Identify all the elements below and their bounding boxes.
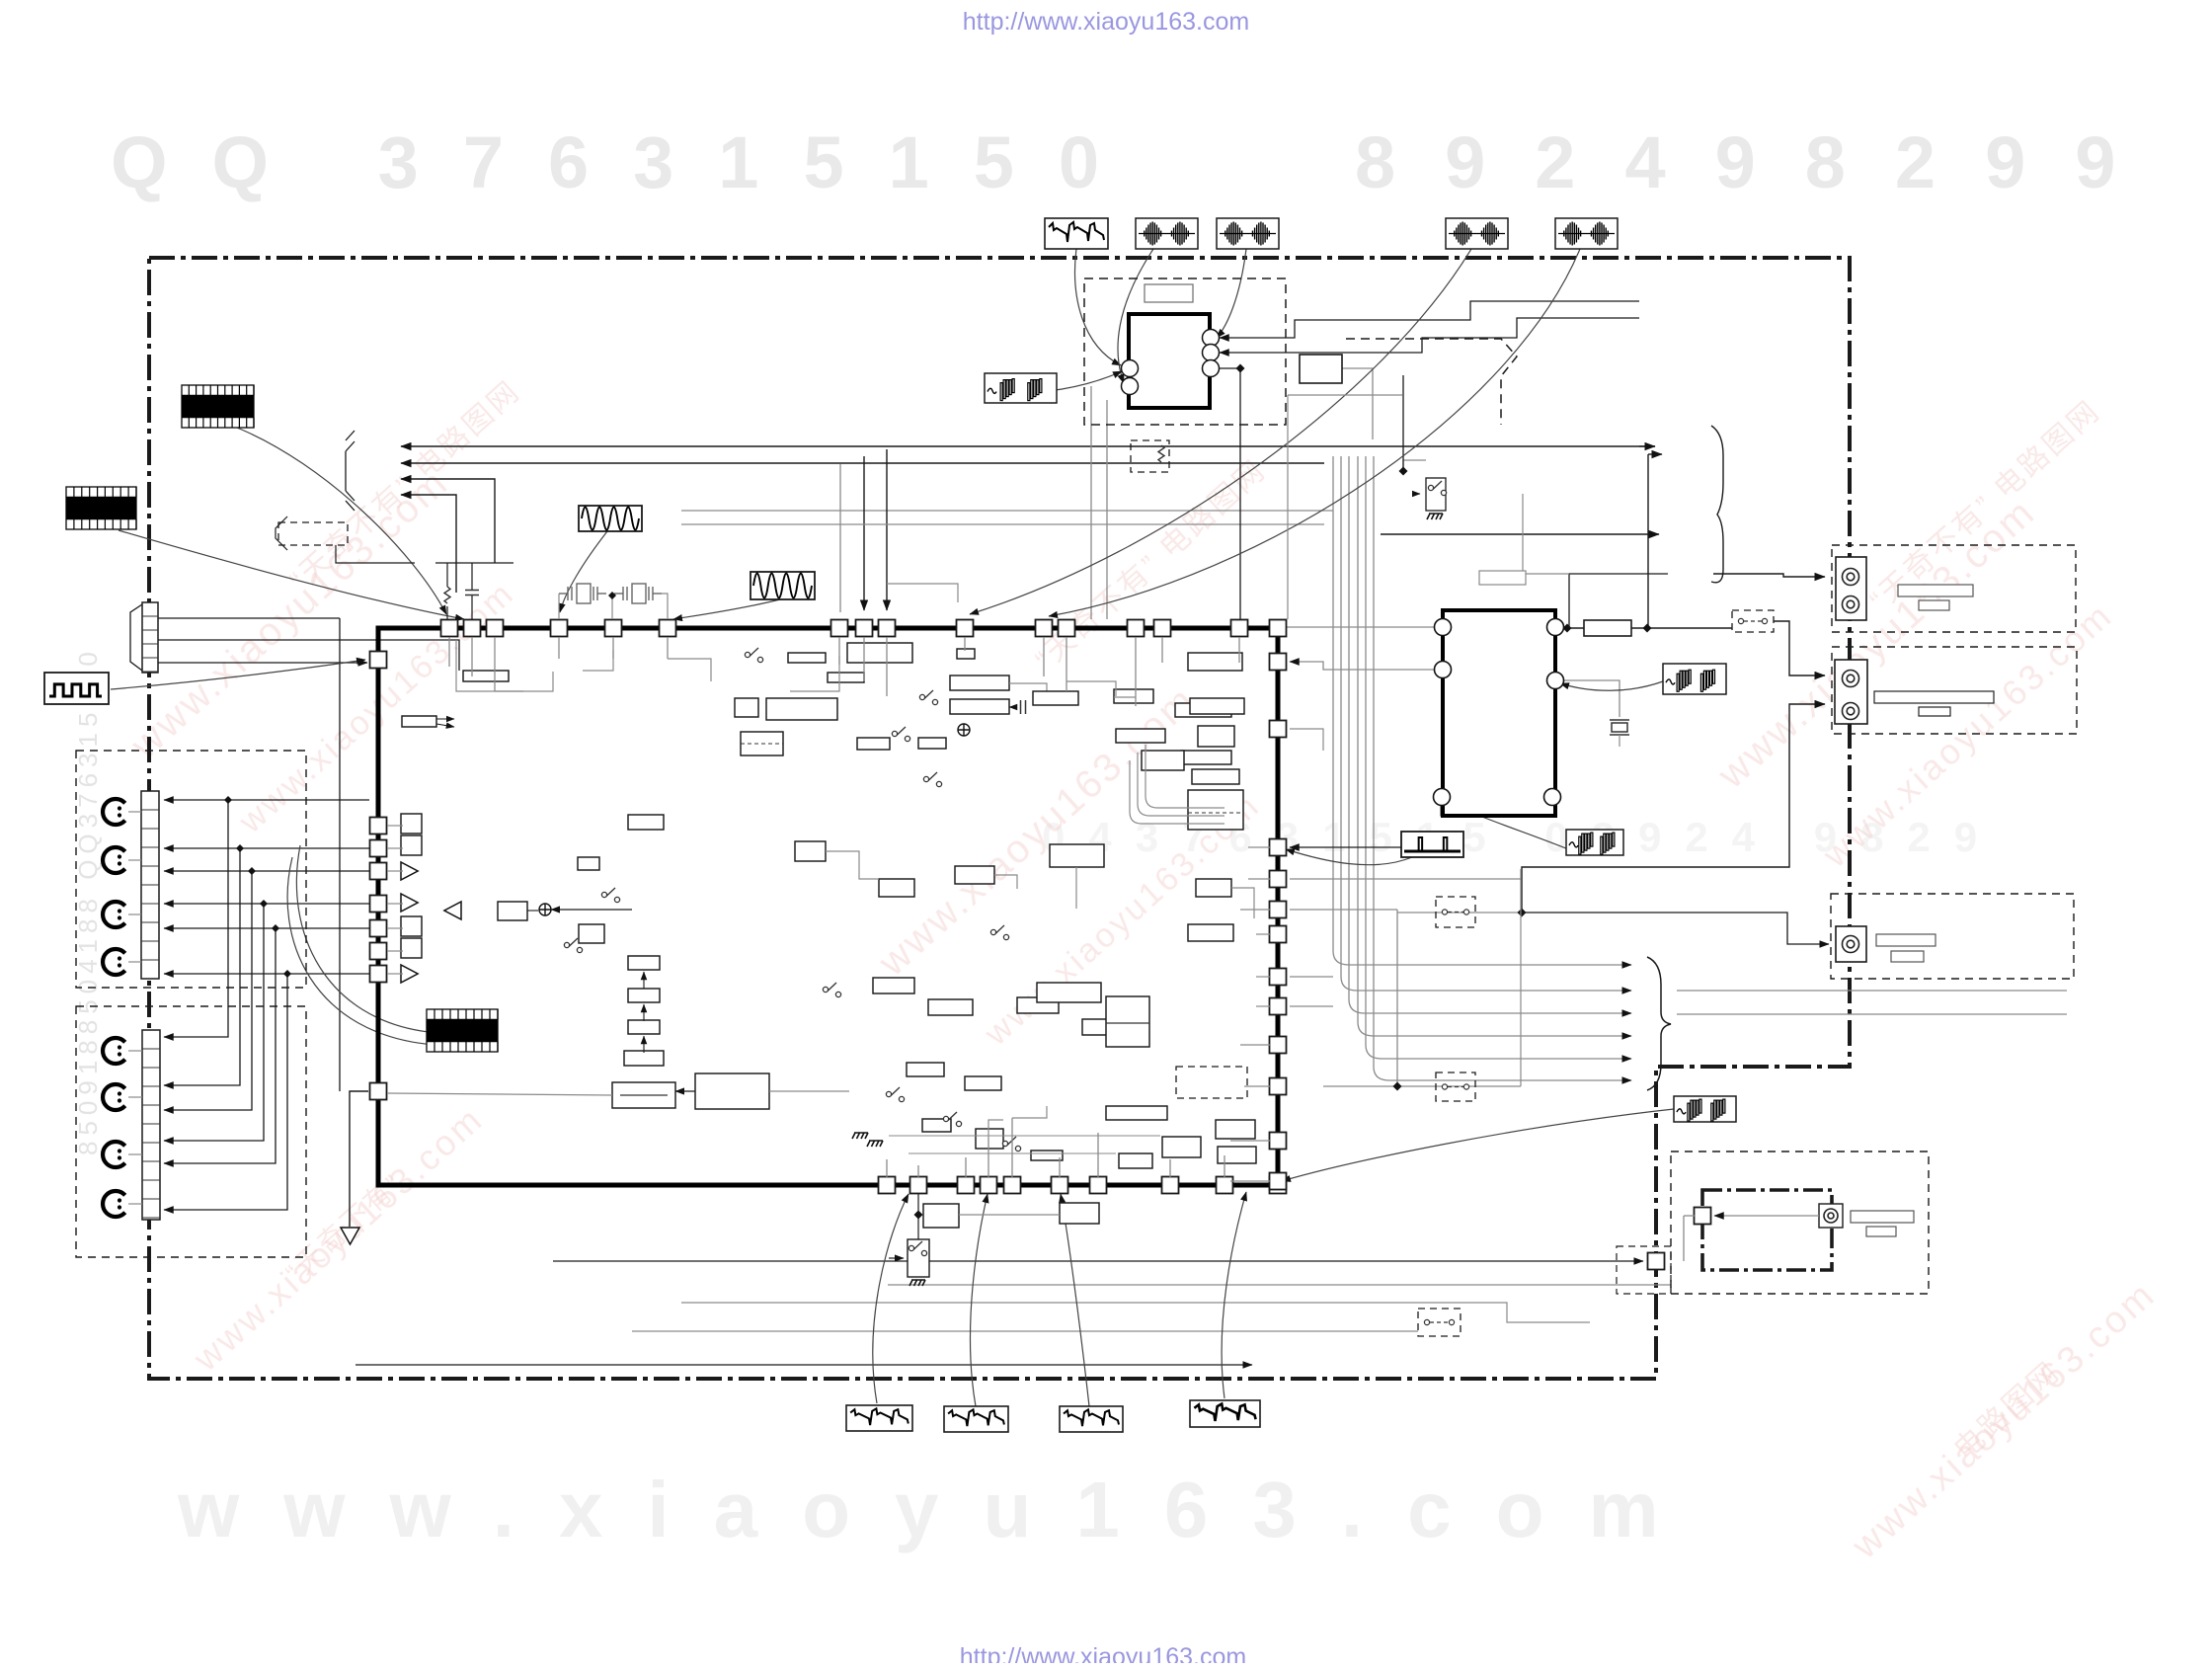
- wire stub below top pin 850: [838, 637, 840, 665]
- junction below IC: [914, 1211, 923, 1220]
- waveform icon (sine burst) top: [985, 373, 1057, 403]
- wire into connector C: [1522, 913, 1829, 944]
- IC left pin y668: [370, 652, 387, 669]
- wire stub left of right pin 921: [1240, 909, 1270, 911]
- leader from black burst icon 1: [237, 428, 446, 614]
- label box C2: [1891, 951, 1924, 962]
- connector strip 2: [142, 1030, 160, 1220]
- IC corner pin: [1270, 1177, 1287, 1194]
- leader from sine-burst icon top: [989, 371, 1122, 392]
- IC top pin x478: [464, 620, 481, 637]
- waveform icon (sawtooth) b3: [1060, 1406, 1123, 1432]
- label box B2: [1919, 707, 1950, 716]
- wire below IC long 2: [888, 1285, 1671, 1294]
- waveform icon (sine burst) mid: [1566, 830, 1623, 855]
- wire input net 5 to connector strip 1: [164, 927, 369, 929]
- IC right pin y1196: [1270, 1173, 1287, 1190]
- block DAC cell 1: [401, 814, 422, 834]
- leader from sawtooth icon top: [1075, 249, 1121, 365]
- IC top pin x566: [551, 620, 568, 637]
- IC bottom pin x1073: [1052, 1177, 1068, 1194]
- block C2: [578, 857, 599, 870]
- block A11: [950, 675, 1009, 690]
- block D1: [922, 1119, 951, 1132]
- wire jumper J0 to connector B1: [1774, 621, 1825, 675]
- jack stub: [128, 961, 141, 963]
- IC left pin y915: [370, 896, 387, 913]
- block D3: [1031, 1151, 1063, 1160]
- block chain 4: [624, 1051, 664, 1066]
- leader from bottom icon 1: [873, 1194, 908, 1403]
- wire vertical to pin 850: [839, 464, 841, 612]
- switch S5: [601, 888, 619, 903]
- block D7: [1216, 1120, 1255, 1139]
- wire stub right of left pin 859: [387, 847, 403, 849]
- block A4 (wide): [766, 698, 837, 720]
- IC top pin x875: [856, 620, 873, 637]
- jack stub: [128, 859, 141, 861]
- wire right col top: [1288, 394, 1402, 396]
- connector B body: [1835, 660, 1867, 724]
- block DAC cell 2: [401, 835, 422, 855]
- block below IC 2: [1060, 1203, 1099, 1224]
- leader from bottom-right sine-burst icon: [1282, 1109, 1674, 1181]
- dashed boxlet around D edge pin: [1617, 1246, 1671, 1294]
- junction net 1: [224, 796, 232, 804]
- wire drop net 2 to connector strip 2: [164, 848, 240, 1085]
- block E2: [879, 879, 914, 897]
- waveform icon (sawtooth): [1045, 218, 1108, 249]
- block right of sync block: [1300, 355, 1342, 383]
- IC right pin y946: [1270, 926, 1287, 943]
- wire stub above bottom pin 930: [917, 1165, 919, 1177]
- wire crystal rail: [558, 594, 560, 619]
- IC left pin y1105: [370, 1083, 387, 1100]
- wire jumper2 net: [1323, 1085, 1521, 1087]
- IC left pin y940: [370, 920, 387, 937]
- crystal capacitor below delay block: [1610, 720, 1629, 735]
- pin circle left 1: [1122, 360, 1139, 377]
- switch in box below IC: [908, 1241, 926, 1256]
- RCA jack C1: [1843, 936, 1859, 953]
- wire top band 2: [668, 659, 711, 681]
- block E5: [1037, 983, 1101, 1002]
- jack plug y1064: [103, 1038, 125, 1064]
- jack stub: [128, 1153, 142, 1155]
- bracket for top lines: [346, 431, 355, 511]
- summing junction C: [539, 904, 551, 915]
- block E6: [1196, 879, 1231, 897]
- RCA jack D1: [1824, 1209, 1838, 1223]
- wire from top strip 3 into IC pin: [158, 662, 367, 664]
- wire stub below top pin 478: [471, 637, 473, 676]
- wire stub below top pin 1255: [1238, 637, 1240, 663]
- IC bottom pin x978: [958, 1177, 975, 1194]
- block D2: [976, 1129, 1003, 1149]
- switch in box: [1428, 481, 1446, 496]
- wire stub below top pin 1080: [1066, 637, 1067, 691]
- wire fan ext 2: [1677, 1013, 2067, 1015]
- jack plug y926: [103, 902, 125, 927]
- waveform icon (black burst) 3: [427, 1009, 498, 1052]
- junction net 5: [272, 924, 279, 932]
- connector A body: [1836, 557, 1866, 620]
- svg-text:QQ 376315150: QQ 376315150: [111, 121, 1144, 203]
- wire nested L2: [1138, 753, 1224, 816]
- jack plug y1111: [103, 1084, 125, 1110]
- wire vertical to pin 875: [863, 456, 865, 610]
- bracket right of top fan: [1711, 426, 1723, 583]
- label box above delay: [1479, 571, 1526, 585]
- wire stub above bottom pin 1001: [987, 1138, 989, 1177]
- wire input net 2 to connector strip 1: [164, 847, 369, 849]
- wire crystal stub: [1619, 735, 1620, 747]
- IC top pin x676: [660, 620, 676, 637]
- wire stub above bottom pin 1025: [1011, 1118, 1013, 1177]
- ground triangle (open): [341, 1228, 359, 1244]
- wire top block left drops: [1090, 386, 1092, 619]
- delay pin circle L2: [1435, 662, 1452, 678]
- jack stub: [128, 1203, 142, 1205]
- wire below blocks: [959, 1214, 1060, 1216]
- junction at 1587,636: [1563, 624, 1572, 633]
- RCA jack A2: [1843, 596, 1859, 613]
- block A13 under pin 977: [957, 649, 975, 659]
- RCA jack B1: [1843, 671, 1859, 687]
- wire sum feed: [551, 909, 632, 911]
- svg-text:http://www.xiaoyu163.com: http://www.xiaoyu163.com: [960, 1643, 1246, 1663]
- wire bus vertical/fan line 3: [1349, 456, 1631, 1013]
- wire input net 3 to connector strip 1: [164, 870, 369, 872]
- dashed connector box B (right): [1832, 647, 2077, 734]
- leader from black burst icon 2: [118, 530, 464, 619]
- block E3: [955, 866, 994, 884]
- wire into below-IC switch: [889, 1257, 904, 1259]
- wire delay bottom link (thick): [1442, 805, 1552, 815]
- IC right pin y989: [1270, 969, 1287, 986]
- switch S2: [919, 690, 937, 705]
- wire vertical riser x1669: [1647, 454, 1649, 628]
- wire bus top line 1: [401, 445, 1655, 447]
- wire D pin link: [1684, 1215, 1695, 1217]
- IC left pin y963: [370, 943, 387, 960]
- wire stub below top pin 501: [494, 637, 496, 691]
- waveform icon (square wave): [44, 673, 109, 704]
- dashed jumper box left: [278, 522, 348, 545]
- wire stub above bottom pin 1240: [1224, 1155, 1225, 1177]
- wire pin right 989: [1290, 976, 1333, 978]
- wire input net 6 to connector strip 1: [164, 973, 369, 975]
- leader from sine icon 1: [560, 531, 607, 612]
- wire E4 drop: [1075, 867, 1077, 909]
- block A7: [828, 673, 864, 682]
- junction 1256,373: [1236, 364, 1245, 373]
- IC left pin y836: [370, 818, 387, 834]
- switch S6: [564, 938, 582, 953]
- wire drop net 1 to connector strip 2: [164, 800, 228, 1037]
- wire stub above bottom pin 1112: [1097, 1133, 1099, 1177]
- capacitor above pin 478: [465, 591, 479, 596]
- wire stub left of right pin 1196: [1230, 1180, 1270, 1182]
- block D5: [1119, 1153, 1152, 1168]
- block B7: [1198, 726, 1234, 747]
- connector strip top: [142, 602, 158, 673]
- waveform icon (modulated burst) 2: [1217, 218, 1279, 249]
- label box D2: [1866, 1227, 1896, 1236]
- waveform icon (modulated burst) 4: [1555, 218, 1618, 249]
- svg-text:8509188504188 QQ376315150: 8509188504188 QQ376315150: [73, 646, 103, 1155]
- waveform icon (sawtooth) b2: [944, 1406, 1008, 1432]
- ground below IC switch: [909, 1280, 925, 1286]
- IC top pin x977: [957, 620, 974, 637]
- pin circle right 2: [1203, 345, 1220, 361]
- wire D pin down: [1683, 1216, 1685, 1261]
- wire C5 left: [387, 1093, 612, 1095]
- IC right pin y890: [1270, 871, 1287, 888]
- switch S3: [892, 727, 909, 742]
- wire B2 feed: [1522, 704, 1825, 913]
- wire stub right of left pin 940: [387, 927, 403, 929]
- wire bus top line 4: [401, 495, 456, 593]
- RCA jack A1: [1843, 569, 1859, 586]
- waveform icon (sine burst) right: [1663, 664, 1726, 694]
- wire nested L3: [1145, 745, 1224, 808]
- wire stub left of right pin 946: [1256, 933, 1270, 935]
- wire stub left of right pin 1019: [1256, 1005, 1270, 1007]
- block mid M3: [1017, 997, 1059, 1013]
- block mid M2: [928, 999, 973, 1015]
- wire pin right 738 stub: [1290, 729, 1323, 751]
- IC bottom pin x1112: [1090, 1177, 1107, 1194]
- wire input net 4 to connector strip 1: [164, 903, 369, 905]
- IC right pin y1019: [1270, 998, 1287, 1015]
- block chain 2: [628, 989, 660, 1002]
- pin circle right 3: [1203, 360, 1220, 377]
- waveform icon (modulated burst) 1: [1136, 218, 1198, 249]
- buffer amp T3: [401, 965, 418, 983]
- wire A12 out: [1009, 706, 1016, 708]
- resistor R above pin 455: [444, 587, 450, 603]
- IC top pin x1150: [1128, 620, 1145, 637]
- crystal X1 network: [559, 584, 606, 603]
- wire pin right 890: [1290, 878, 1521, 880]
- delay pin circle R2: [1547, 673, 1564, 689]
- block A15: [1033, 691, 1078, 705]
- wire delay right to crystal: [1561, 680, 1619, 717]
- wire nested L1: [1130, 760, 1224, 824]
- wire top line 5: [681, 510, 1333, 512]
- waveform icon (sine) 1: [579, 506, 642, 531]
- dashed connector box 2 (left): [76, 1006, 306, 1257]
- wire right col stub: [1287, 395, 1289, 619]
- IC top pin x1057: [1036, 620, 1053, 637]
- leader from bottom icon 4: [1222, 1192, 1246, 1398]
- wire drop net 5 to connector strip 2: [164, 928, 276, 1163]
- wire y924 jumper1 net: [1397, 912, 1522, 913]
- wire stub below top pin 455: [448, 637, 450, 667]
- IC top pin x501: [487, 620, 504, 637]
- leader from sine-burst icon right: [1560, 681, 1663, 690]
- IC top pin x850: [831, 620, 848, 637]
- block DAC cell 3: [401, 916, 422, 936]
- block A12: [950, 699, 1009, 714]
- wire stub below top pin 1150: [1135, 637, 1137, 706]
- wire delay L1 to IC: [1287, 626, 1434, 628]
- block D10: [965, 1076, 1001, 1090]
- wire vertical to pin 898: [886, 449, 888, 610]
- jack plug y1169: [103, 1142, 125, 1167]
- wire drop net 3 to connector strip 2: [164, 871, 252, 1110]
- delay pin circle R1: [1547, 619, 1564, 636]
- wire delay out through resistor: [1561, 627, 1584, 629]
- waveform icon (sawtooth) b1: [846, 1405, 912, 1431]
- IC top pin x455: [441, 620, 458, 637]
- wire stub above bottom pin 978: [965, 1157, 967, 1177]
- leader from sine icon 2: [673, 599, 780, 619]
- leader arc from black burst icon 3 (b): [287, 857, 434, 1045]
- wire input net 1 to connector strip 1: [164, 799, 369, 801]
- wire hook 6: [1012, 1106, 1047, 1118]
- IC bottom pin x1025: [1004, 1177, 1021, 1194]
- wire staircase to top block circle 1: [1220, 301, 1639, 338]
- brace right of fan: [1647, 957, 1671, 1090]
- junction net 3: [248, 867, 256, 875]
- junction at 1668,636: [1643, 624, 1652, 633]
- IC bottom pin x1185: [1162, 1177, 1179, 1194]
- wire stub below top pin 566: [558, 637, 560, 659]
- label box A1: [1898, 585, 1973, 596]
- junction net 2: [236, 844, 244, 852]
- block D8: [1218, 1147, 1256, 1163]
- wire cap stub: [471, 563, 473, 590]
- leader from mod icon 2: [1217, 249, 1246, 338]
- junction 1541,924: [1518, 909, 1527, 917]
- wire resistor stub2: [446, 606, 448, 619]
- wire bus vertical/fan line 5: [1366, 456, 1631, 1059]
- wire stub above bottom pin 1073: [1059, 1157, 1061, 1177]
- block B2: [1175, 703, 1231, 717]
- wire stub left of right pin 1058: [1240, 1044, 1270, 1046]
- wire stub below top pin 875: [863, 637, 865, 681]
- block B1: [1114, 689, 1153, 703]
- jumper link J0: [1732, 610, 1774, 632]
- wire pin to ground triangle: [350, 1091, 368, 1227]
- RCA jack B2: [1843, 703, 1859, 720]
- waveform icon (modulated burst) 3: [1446, 218, 1508, 249]
- wire delay L2 to IC pin: [1290, 662, 1434, 670]
- wire below IC long 1: [681, 1303, 1590, 1322]
- junction crystal mid: [608, 592, 616, 599]
- wire hook 5: [988, 1120, 1003, 1138]
- wire hook 4: [1114, 696, 1136, 698]
- wire to bottom-right pin2: [553, 1260, 1643, 1262]
- wire vertical feed 1542: [1523, 494, 1569, 574]
- dashed box right segment with chamfer: [1346, 339, 1517, 425]
- wire stub left of right pin 989: [1256, 976, 1270, 978]
- block D9: [907, 1063, 944, 1076]
- block A10: [918, 738, 946, 749]
- wire stub below top pin 898: [886, 637, 888, 696]
- waveform icon (pulse): [1401, 832, 1463, 857]
- wire into switch box: [1403, 460, 1426, 471]
- capacitor A14: [1021, 700, 1026, 714]
- wire A2 arrows: [436, 718, 454, 720]
- wire resistor stub: [446, 563, 448, 587]
- IC right pin y858: [1270, 839, 1287, 856]
- wire stub left of right pin 858: [1248, 846, 1270, 848]
- ground inside IC: [852, 1133, 868, 1139]
- IC right pin y1058: [1270, 1037, 1287, 1054]
- block C4: [628, 815, 664, 830]
- pin on module D edge: [1648, 1253, 1665, 1270]
- block E4: [1050, 844, 1104, 867]
- jack stub: [128, 811, 141, 813]
- wire resistor A to connector A1: [1713, 574, 1825, 577]
- jumper link J2: [1436, 1072, 1475, 1101]
- block C3: [579, 924, 604, 943]
- wire top block right circle 3 net: [1216, 368, 1240, 619]
- leader from bottom icon 2: [971, 1194, 987, 1406]
- block B8: [1142, 751, 1184, 770]
- wire top band 4: [583, 650, 613, 671]
- buffer amp T4 (left): [444, 902, 461, 919]
- wire top band 3: [790, 656, 839, 691]
- waveform icon (sine burst) bottom right: [1674, 1096, 1736, 1122]
- wire top line 6: [681, 523, 1324, 525]
- label box in dashed area: [1145, 284, 1193, 302]
- bracket left of top strip: [130, 604, 142, 671]
- label box A2: [1919, 600, 1949, 610]
- block D6: [1162, 1137, 1201, 1157]
- switch box: [1426, 478, 1446, 511]
- block B3: [1116, 729, 1165, 743]
- label box D1: [1851, 1211, 1914, 1223]
- wire top block left drops 2: [1106, 400, 1108, 619]
- connector C body: [1836, 926, 1866, 962]
- block below IC 1: [923, 1204, 959, 1228]
- wire from top strip 1: [158, 617, 340, 619]
- dashed box D (bottom right): [1671, 1152, 1929, 1294]
- switch S4: [923, 772, 941, 787]
- block E1: [795, 841, 826, 861]
- wire top band 1: [456, 640, 523, 691]
- wire bus vertical/fan line 6: [1374, 456, 1631, 1080]
- wire cap stub2: [471, 596, 473, 619]
- wire vertical 1415 a: [1396, 910, 1398, 1086]
- wire E3 hook: [994, 875, 1017, 889]
- block long C6: [695, 1073, 769, 1109]
- IC bottom pin x1001: [981, 1177, 997, 1194]
- wire pin right 858: [1290, 832, 1402, 847]
- wire bottom arrow line: [355, 1364, 1252, 1366]
- wire jumper to down: [336, 545, 415, 563]
- block DAC cell 4: [401, 938, 422, 958]
- svg-text:http://www.xiaoyu163.com: http://www.xiaoyu163.com: [963, 8, 1249, 36]
- switch S9: [1002, 1137, 1020, 1152]
- leader from mod icon 3: [970, 249, 1471, 614]
- IC right pin y1155: [1270, 1133, 1287, 1150]
- wire stub right of left pin 836: [387, 825, 403, 827]
- jumper link J3: [1418, 1309, 1461, 1336]
- wire hook 1: [495, 672, 553, 691]
- wire pin right 921: [1290, 909, 1397, 911]
- buffer amp T1: [401, 862, 418, 880]
- wire vertical 1540 b: [1520, 869, 1522, 1086]
- IC right pin y921: [1270, 902, 1287, 918]
- IC top pin x1177: [1154, 620, 1171, 637]
- wire crystal right: [662, 594, 668, 619]
- wire vertical 1421: [1402, 375, 1404, 471]
